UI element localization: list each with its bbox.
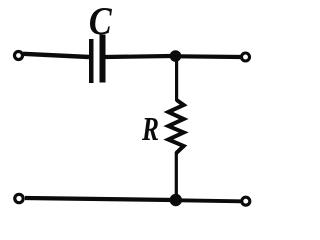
node junction top bbox=[170, 50, 182, 62]
wire bottom-right segment bbox=[179, 200, 241, 201]
wire top-right segment bbox=[179, 54, 241, 59]
resistor R zigzag bbox=[168, 100, 183, 153]
node junction bottom bbox=[170, 194, 182, 206]
terminal bottom-left bbox=[15, 194, 23, 202]
wire node to resistor bbox=[175, 58, 178, 101]
terminal top-left bbox=[15, 52, 23, 60]
wire top-left segment bbox=[23, 54, 89, 57]
wire resistor to bottom node bbox=[175, 152, 178, 197]
capacitor C left plate bbox=[89, 39, 94, 83]
terminal top-right bbox=[242, 53, 250, 61]
capacitor C right plate bbox=[100, 35, 106, 83]
wire bottom-left segment bbox=[25, 198, 173, 200]
label C bbox=[90, 8, 112, 35]
wire top-mid segment bbox=[105, 56, 172, 57]
label R bbox=[142, 118, 158, 140]
terminal bottom-right bbox=[242, 197, 250, 205]
